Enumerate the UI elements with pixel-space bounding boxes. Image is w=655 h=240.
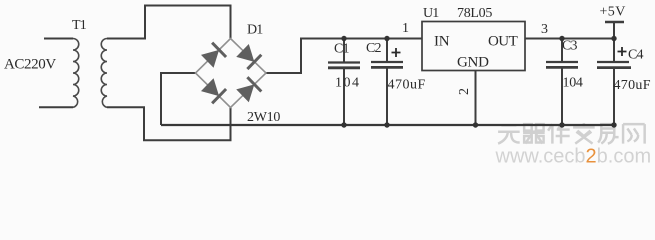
diode bottom-right bbox=[236, 77, 262, 103]
junction dot C3 rail bbox=[559, 122, 564, 127]
svg-text:GND: GND bbox=[457, 55, 489, 71]
wire primary top stub bbox=[44, 38, 73, 40]
svg-text:C3: C3 bbox=[562, 39, 578, 54]
svg-text:OUT: OUT bbox=[488, 34, 518, 50]
junction dot C3 top bbox=[559, 36, 564, 41]
label plus C4 bbox=[618, 47, 627, 56]
svg-text:+5V: +5V bbox=[600, 5, 626, 20]
wire bridge left vertex to ground rail bbox=[161, 73, 196, 125]
svg-text:D1: D1 bbox=[247, 23, 263, 38]
diode top-right bbox=[236, 43, 262, 69]
regulator U1 box bbox=[422, 22, 525, 71]
svg-text:C1: C1 bbox=[334, 42, 350, 57]
capacitor C3 lead bbox=[561, 39, 563, 126]
svg-text:104: 104 bbox=[335, 76, 361, 91]
wire regulator OUT bbox=[525, 38, 614, 40]
transformer T1 secondary winding bbox=[101, 39, 107, 108]
svg-text:470uF: 470uF bbox=[614, 78, 651, 93]
diode top-left bbox=[200, 43, 226, 69]
watermark 件 bbox=[548, 124, 570, 143]
svg-text:AC220V: AC220V bbox=[4, 57, 56, 73]
svg-text:2W10: 2W10 bbox=[247, 110, 280, 125]
svg-text:78L05: 78L05 bbox=[457, 6, 492, 21]
svg-text:C4: C4 bbox=[628, 48, 644, 63]
transformer T1 primary winding bbox=[73, 39, 79, 108]
capacitor C2 lead bbox=[386, 39, 388, 126]
capacitor C1 lead bbox=[343, 39, 345, 126]
capacitor C2 plates bbox=[371, 61, 403, 63]
svg-text:2: 2 bbox=[457, 88, 472, 95]
svg-text:T1: T1 bbox=[72, 18, 87, 33]
capacitor C4 plates bbox=[597, 61, 629, 63]
watermark 网 bbox=[623, 124, 645, 143]
svg-text:3: 3 bbox=[541, 22, 548, 37]
wire regulator GND pin bbox=[475, 71, 477, 126]
wire bridge right vertex to regulator IN bbox=[266, 39, 422, 74]
junction dot C2 top bbox=[384, 36, 389, 41]
label plus C2 bbox=[392, 48, 401, 57]
capacitor C1 plates bbox=[328, 61, 360, 63]
capacitor C4 lead bbox=[613, 22, 615, 125]
svg-text:IN: IN bbox=[434, 34, 450, 50]
svg-text:470uF: 470uF bbox=[388, 78, 426, 93]
junction dot C2 rail bbox=[384, 122, 389, 127]
wire ground rail bbox=[161, 124, 614, 126]
diode bottom-left bbox=[200, 78, 226, 104]
bridge rectifier D1 diamond bbox=[196, 39, 267, 108]
svg-text:C2: C2 bbox=[366, 41, 382, 56]
wire secondary top to bridge top bbox=[107, 6, 231, 39]
svg-text:U1: U1 bbox=[423, 6, 439, 21]
svg-text:www.cecb2b.com: www.cecb2b.com bbox=[495, 146, 652, 168]
junction dot C1 top bbox=[341, 36, 346, 41]
watermark 器 bbox=[523, 124, 545, 143]
wire secondary bottom to bridge bottom bbox=[107, 107, 231, 140]
watermark 元 bbox=[498, 123, 645, 144]
junction dot C4 top bbox=[611, 36, 616, 41]
svg-text:104: 104 bbox=[563, 76, 583, 91]
junction dot C1 rail bbox=[341, 122, 346, 127]
capacitor C3 plates bbox=[546, 61, 578, 63]
junction dot C4 rail bbox=[611, 122, 616, 127]
junction dot GND rail bbox=[473, 122, 478, 127]
watermark 易 bbox=[598, 124, 619, 143]
watermark 交 bbox=[573, 123, 595, 144]
svg-text:1: 1 bbox=[402, 21, 409, 36]
+5V terminal bar bbox=[605, 21, 624, 23]
wire primary bottom stub bbox=[39, 106, 73, 108]
